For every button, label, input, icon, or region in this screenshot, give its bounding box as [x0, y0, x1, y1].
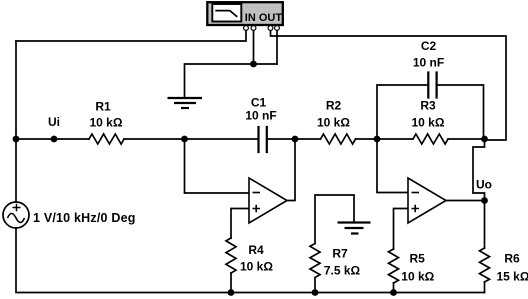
svg-text:10 kΩ: 10 kΩ [90, 116, 123, 130]
wire: node C up to C2 [377, 85, 428, 139]
svg-text:R2: R2 [326, 99, 342, 113]
Bode plotter XBP1 [207, 2, 282, 30]
svg-text:R6: R6 [504, 252, 520, 266]
svg-text:Ui: Ui [48, 115, 60, 129]
wire: node B to R2 [295, 138, 321, 140]
wire: R7 top to middle ground [315, 195, 354, 244]
svg-text:10 kΩ: 10 kΩ [317, 116, 350, 130]
resistor R5 [389, 249, 399, 283]
svg-text:R7: R7 [332, 247, 348, 261]
node Ui [51, 136, 58, 143]
wire: left input rail (top) [15, 41, 17, 202]
svg-text:Uo: Uo [476, 178, 492, 192]
wire: R4 to bottom rail [230, 273, 232, 293]
wire: ground branch to left ground symbol [185, 64, 278, 97]
wire: Ui row from rail to R1 [16, 138, 89, 140]
wire: C2 to node D [437, 85, 484, 139]
wire: node A to C1 [185, 138, 259, 140]
wire: node C to op-amp U2 inverting input [377, 139, 408, 193]
svg-text:C1: C1 [251, 96, 267, 110]
svg-text:R1: R1 [95, 100, 111, 114]
capacitor C2 [428, 73, 436, 98]
resistor R3 [413, 134, 448, 144]
wire: R6 to bottom rail [484, 282, 486, 293]
wire: Bode OUT- terminal drop [276, 30, 278, 64]
wire: node D jog down to output node [473, 139, 485, 201]
wire: left rail bottom and ground bottom rail [16, 228, 485, 293]
node: R5 rail junction [390, 289, 397, 296]
node: instrument ground junction [250, 61, 257, 68]
svg-text:R5: R5 [410, 252, 426, 266]
resistor R4 [226, 238, 236, 273]
svg-text:10 kΩ: 10 kΩ [401, 270, 434, 284]
wire: R1 to node A [124, 138, 185, 140]
wire: R2 to node C [356, 138, 378, 140]
svg-text:10 nF: 10 nF [413, 56, 444, 70]
op-amp U1 [249, 178, 287, 223]
svg-text:1 V/10 kHz/0 Deg: 1 V/10 kHz/0 Deg [33, 211, 136, 225]
resistor R1 [89, 134, 124, 144]
svg-text:7.5 kΩ: 7.5 kΩ [324, 264, 361, 278]
wire: op-amp U2 noninverting input to R5 [394, 209, 409, 250]
capacitor C1 [259, 127, 267, 152]
svg-text:OUT: OUT [259, 12, 283, 24]
wire: op-amp U1 output to node B [287, 139, 295, 201]
wire: node C to R3 [377, 138, 413, 140]
wire: Bode IN- terminal drop [253, 30, 255, 64]
wire: node Uo down to R6 [484, 201, 486, 249]
AC source V1 [3, 202, 29, 228]
svg-text:R4: R4 [248, 243, 264, 257]
node: R4 rail junction [228, 289, 235, 296]
ground (middle, near R7) [338, 195, 371, 234]
node: R7 rail junction [312, 289, 319, 296]
svg-text:C2: C2 [421, 39, 437, 53]
node B [292, 136, 299, 143]
node C [374, 136, 381, 143]
wire: op-amp U1 noninverting input to R4 [231, 209, 249, 239]
node D [481, 136, 488, 143]
wire: R3 to node D [448, 138, 485, 140]
op-amp U2 [408, 178, 446, 223]
node: rail junction [13, 136, 20, 143]
wire: Bode OUT+ terminal to output node [271, 30, 507, 140]
wire: R7 to bottom rail [314, 278, 316, 293]
wire: Bode IN+ terminal to input rail [16, 30, 246, 41]
resistor R6 [480, 248, 490, 282]
wire: R5 to bottom rail [393, 283, 395, 293]
svg-text:R3: R3 [420, 99, 436, 113]
svg-text:10 kΩ: 10 kΩ [240, 260, 273, 274]
svg-text:10 nF: 10 nF [245, 109, 276, 123]
svg-text:15 kΩ: 15 kΩ [497, 270, 528, 284]
resistor R7 [310, 244, 320, 278]
node Uo junction [481, 197, 488, 204]
wire: node A to op-amp U1 inverting input [185, 139, 250, 193]
resistor R2 [321, 134, 356, 144]
wire: C1 to node B [267, 138, 295, 140]
ground (left, instrument ground) [168, 98, 203, 108]
node A [181, 136, 188, 143]
wire: op-amp U2 output to node Uo [446, 200, 485, 202]
svg-text:10 kΩ: 10 kΩ [412, 116, 445, 130]
svg-text:IN: IN [245, 12, 256, 24]
